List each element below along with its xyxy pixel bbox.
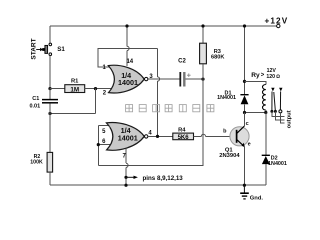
relay contact NO fixed	[279, 88, 282, 92]
wire R1 to pin2 node	[85, 88, 111, 90]
node contact terminal 2	[274, 110, 277, 113]
svg-text:2N3904: 2N3904	[219, 153, 240, 159]
resistor R4 5K6	[173, 133, 194, 140]
node B junction R1/pin2/down	[94, 87, 97, 90]
node C1 bottom junction	[48, 112, 51, 115]
node rail/R3	[201, 24, 204, 27]
node D1 top / coil top	[243, 80, 246, 83]
diode D1 1N4001	[240, 94, 248, 96]
wire R2 to ground rail	[49, 172, 51, 185]
svg-text:e: e	[248, 142, 251, 148]
op-amp U1a NOR gate 1/4 14001	[108, 65, 148, 93]
wire collector node to coil bottom	[245, 112, 266, 114]
svg-text:pins 8,9,12,13: pins 8,9,12,13	[143, 175, 184, 182]
svg-text:Ω: Ω	[276, 74, 280, 80]
wire pin4 output to node D	[148, 135, 173, 137]
watermark	[126, 105, 214, 112]
wire pins 8,9,12,13 stub with arrow	[126, 176, 134, 178]
svg-text:R4: R4	[178, 128, 186, 134]
node contact terminal 3 open	[279, 110, 282, 113]
svg-text:C2: C2	[178, 58, 186, 64]
wire rail to switch S1	[49, 26, 51, 43]
wire ground rail	[50, 184, 266, 186]
svg-text:12V: 12V	[267, 68, 277, 74]
wire node C down to bottom horizontal then left to pins 5,6 bracket	[98, 79, 203, 165]
wire C1 node to R2	[49, 114, 51, 153]
wire pin7 down (hop at y165.3) then to ground rail	[125, 148, 127, 163]
node pin7/pins8 stub	[124, 176, 127, 179]
svg-text:14001: 14001	[118, 78, 138, 87]
svg-text:680K: 680K	[211, 54, 224, 60]
relay contact NC fixed	[271, 88, 274, 92]
node rail/pin14	[125, 24, 128, 27]
svg-text:c: c	[246, 121, 249, 127]
svg-text:1N4001: 1N4001	[217, 95, 236, 101]
node +12V terminal	[277, 24, 280, 27]
svg-text:120: 120	[266, 74, 275, 80]
svg-text:START: START	[31, 38, 38, 59]
svg-text:14: 14	[126, 59, 133, 65]
wire coil top branch	[245, 81, 266, 84]
svg-text:100K: 100K	[30, 160, 43, 166]
svg-text:14001: 14001	[118, 133, 138, 142]
svg-text:+12V: +12V	[265, 17, 289, 26]
node C junction C2/R3/down	[201, 78, 204, 81]
svg-text:0.01: 0.01	[29, 103, 40, 109]
node contact terminal 1	[270, 110, 273, 113]
capacitor C2	[179, 72, 181, 87]
wire output terminal 1	[272, 111, 284, 116]
wire C1 bottom horizontal	[50, 113, 96, 115]
wire pin3 output to C2	[148, 78, 180, 80]
svg-text:S1: S1	[57, 46, 65, 53]
node emitter/ground rail	[243, 184, 246, 187]
wire bracket vertical pins 5,6	[97, 125, 99, 165]
diode D2 1N4001	[265, 113, 267, 155]
wire pin14 from +12V rail (hop at y48.4)	[126, 26, 128, 46]
resistor R2 100K	[47, 152, 53, 172]
node coil bottom/D2	[264, 111, 267, 114]
wire pin1 feedback: vertical and top horizontal	[98, 48, 158, 67]
switch S1	[49, 43, 52, 46]
wire +12V top rail	[50, 25, 277, 27]
node bracket junction pin6	[97, 143, 100, 146]
svg-text:output: output	[286, 110, 292, 128]
node A junction S1/C1/R1	[48, 87, 51, 90]
relay coil Ry	[262, 85, 265, 110]
wire node B down	[95, 89, 97, 114]
wire node A to R1	[50, 88, 65, 90]
resistor R3 680K	[202, 26, 204, 43]
wire C2 to node C	[186, 78, 203, 80]
wire pin6 stub	[98, 144, 111, 146]
node rail/branch	[243, 24, 246, 27]
wire pin5 stub	[98, 124, 111, 126]
wire feedback vertical pin4 to pin1 net (hop at y79)	[157, 48, 159, 77]
transistor Q1 2N3904	[230, 127, 249, 146]
svg-text:C1: C1	[32, 96, 39, 102]
node collector/D1/coil	[243, 111, 246, 114]
node D junction pin4/feedback/R4	[156, 135, 159, 138]
wire R4 to Q1 base (hop over x203 vertical)	[194, 135, 202, 137]
resistor R1 1M	[65, 85, 85, 93]
node pin7/ground rail	[124, 184, 127, 187]
svg-text:Gnd.: Gnd.	[250, 195, 264, 201]
svg-text:Ry: Ry	[251, 72, 260, 79]
wire output terminal 2	[275, 111, 284, 120]
svg-text:1N4001: 1N4001	[268, 161, 287, 167]
op-amp U1b NOR gate 1/4 14001	[101, 123, 148, 151]
svg-text:>: >	[261, 73, 265, 79]
relay contact arm	[274, 92, 276, 111]
ground symbol	[243, 185, 245, 193]
svg-text:R1: R1	[71, 79, 79, 85]
wire +12V rail to D1/relay branch	[244, 26, 246, 94]
wire switch to node A	[49, 56, 51, 89]
capacitor C1 0.01	[49, 89, 51, 99]
wire output terminal 3	[280, 113, 284, 123]
svg-text:1M: 1M	[70, 86, 79, 93]
svg-text:5K6: 5K6	[178, 135, 190, 141]
